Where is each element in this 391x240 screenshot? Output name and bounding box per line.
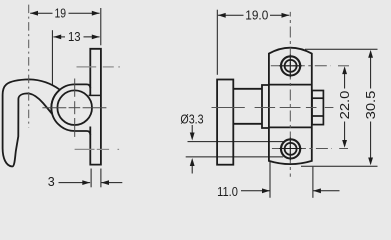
hub arm bottom edge with fillet into plate (75, 131, 91, 135)
top screw hole counterbore (281, 56, 300, 75)
pivot shaft bottom edge (233, 123, 262, 125)
solid centre crosses at both screw holes (279, 55, 302, 161)
dimension 3 left arrow (82, 180, 90, 185)
svg-text:19.0: 19.0 (245, 8, 268, 22)
bottom screw hole centerline (gray dash-dot) (75, 148, 120, 150)
svg-text:13: 13 (68, 30, 81, 44)
svg-text:Ø3.3: Ø3.3 (180, 112, 203, 126)
dimension 3 lines (plate thickness) (59, 169, 123, 188)
hub arm top edge with fillet into plate (75, 84, 91, 88)
hub boss arc (left half of pivot boss) (51, 84, 74, 131)
centerline through hook tip (vertical dash-dot) (28, 5, 30, 128)
dimension 3 right arrow (101, 180, 109, 185)
plate face band line upper (269, 84, 312, 86)
dimension 13 right arrow (92, 35, 100, 40)
dimension 22.0 top arrow (342, 66, 347, 74)
svg-text:19: 19 (55, 7, 67, 21)
dimension 13 left arrow (53, 35, 61, 40)
dimension 19.0 lines (top of right view) (217, 10, 289, 75)
dimension 19.0 left arrow (218, 13, 226, 18)
pivot shaft top edge (233, 88, 262, 90)
dimension 11.0 lines (bottom) (241, 162, 340, 198)
dimension 19 left arrow (30, 11, 38, 16)
hook body outline (3, 79, 60, 166)
mounting plate outline (269, 48, 312, 164)
pivot hole circle (57, 90, 92, 125)
plate face band line lower (269, 126, 312, 128)
hub rear edge line across plate (89, 94, 102, 96)
vertical centerline through screw holes (289, 12, 291, 177)
dimension 11.0 left arrow (262, 188, 270, 193)
bottom hole centerline extension for 22.0 (339, 148, 348, 150)
hole diameter projection line upper (188, 141, 285, 143)
keeper block on right edge (312, 91, 323, 125)
dimension 19 right arrow (92, 11, 100, 16)
dimension 22.0 bottom arrow (342, 140, 347, 148)
pivot vertical centerline (74, 79, 76, 137)
bottom screw hole counterbore (281, 139, 300, 158)
svg-text:3: 3 (48, 175, 55, 189)
horizontal centerline of pivot axis (212, 107, 334, 109)
dimension 19 lines (top of left view) (30, 8, 101, 45)
bottom screw hole (285, 143, 297, 155)
hole diameter projection line lower (186, 156, 284, 158)
rivet flange (left) (217, 80, 233, 165)
hub collar (262, 85, 269, 128)
dimension 30.5 lines (far right, rotated) (301, 49, 378, 166)
dimension O3.3 upper arrow (190, 133, 195, 141)
top screw hole centerline (gray dash-dot) (77, 66, 120, 68)
dimension 30.5 bottom arrow (368, 158, 373, 166)
pivot horizontal centerline (42, 107, 106, 109)
keeper block upper step line (312, 97, 323, 99)
top screw hole (285, 60, 297, 72)
keeper block lower step line (312, 115, 323, 117)
dimension 13 lines (52, 30, 99, 85)
dimension 30.5 top arrow (368, 50, 373, 58)
dimension 22.0 lines (right, rotated) (344, 69, 346, 147)
dimension 11.0 right arrow (313, 188, 321, 193)
plate (side view, 3 thick) (90, 49, 101, 165)
dimension O3.3 arrow tails (191, 125, 193, 174)
bottom hole horizontal centerline (272, 148, 332, 150)
svg-text:22.0: 22.0 (338, 91, 352, 120)
dimension O3.3 lower arrow (190, 158, 195, 166)
svg-text:30.5: 30.5 (364, 91, 378, 120)
top hole horizontal centerline (271, 65, 331, 67)
top hole centerline extension for 22.0 (338, 65, 349, 67)
svg-text:11.0: 11.0 (217, 185, 238, 199)
dimension 19.0 right arrow (282, 13, 290, 18)
